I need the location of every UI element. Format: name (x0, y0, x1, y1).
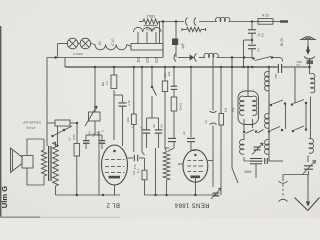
capacitor C12 (128, 155, 145, 162)
label C23 (262, 14, 269, 18)
trimmer C18 (252, 143, 263, 155)
svg-text:MΩ: MΩ (101, 82, 105, 86)
coil L7 (253, 96, 257, 115)
wire H1 b (199, 21, 217, 23)
junction (220, 66, 223, 69)
junction (268, 66, 271, 69)
label R4 (88, 131, 96, 137)
capacitor C22b (99, 141, 105, 149)
switch S5 (270, 100, 287, 106)
wire (244, 119, 253, 131)
label 170ohm (146, 14, 155, 18)
wire (294, 67, 296, 103)
scan edge bottom (0, 216, 120, 218)
potentiometer R4 (85, 106, 100, 126)
lamp La2 (78, 38, 91, 49)
junction (113, 66, 116, 69)
coil L5 (204, 53, 218, 57)
resistor R19 170ohm (139, 19, 159, 24)
svg-text:10k: 10k (224, 107, 228, 112)
junction (251, 66, 254, 69)
label lamps (73, 52, 83, 56)
wire (285, 105, 287, 130)
wire lamp feed (58, 44, 68, 58)
tuning capacitor C20 (303, 161, 316, 175)
coil L10b (265, 131, 269, 161)
T1 tap posts (138, 32, 156, 44)
label R9 (224, 107, 228, 112)
label tap 125 (146, 57, 150, 63)
label Dr (98, 40, 102, 44)
speaker LS driver (22, 156, 33, 169)
resistor R7b (168, 97, 177, 152)
coil L4 (216, 17, 230, 21)
svg-text:5nF: 5nF (133, 164, 137, 169)
svg-text:110: 110 (137, 57, 141, 63)
svg-text:12a: 12a (163, 72, 167, 77)
coil L11 (311, 73, 315, 92)
label tap 110 (137, 57, 141, 63)
tube V1 electrodes (105, 150, 125, 181)
lamp La1 (67, 38, 78, 49)
resistor R2 (74, 144, 80, 157)
capacitor C14 (155, 118, 163, 148)
svg-text:μF: μF (182, 131, 186, 135)
spark gap (279, 181, 288, 202)
wire (244, 39, 254, 67)
svg-text:170Ω: 170Ω (146, 14, 155, 18)
resistor R7a (162, 81, 169, 148)
coil L10 (265, 95, 269, 129)
wire (308, 171, 310, 175)
label C8 (274, 74, 278, 79)
plug arrow antenna (307, 47, 309, 52)
svg-text:Ulm G: Ulm G (0, 186, 9, 208)
svg-text:0,1: 0,1 (136, 169, 140, 173)
svg-text:# 23: # 23 (262, 14, 269, 18)
switch S2 mains (51, 126, 72, 137)
wire (164, 67, 166, 81)
capacitor C13 (143, 118, 151, 148)
svg-text:U0a: U0a (126, 117, 130, 122)
label C10 (111, 38, 115, 45)
fuse Si (258, 19, 273, 25)
wire (142, 67, 145, 155)
capacitor C4 4uF (172, 39, 178, 46)
label can (231, 107, 235, 112)
wire bottom mid rail (145, 194, 219, 197)
junction (133, 66, 136, 69)
wire (47, 122, 77, 124)
wire (133, 67, 135, 114)
svg-text:RENS 1884: RENS 1884 (174, 202, 209, 208)
wire (76, 156, 78, 195)
wire (86, 121, 102, 140)
capacitor C17 variable (204, 58, 217, 188)
label Bl25 (280, 38, 284, 46)
label R5 (126, 117, 134, 128)
svg-text:0,55: 0,55 (72, 134, 76, 140)
svg-text:μF: μF (140, 126, 144, 130)
wire bottom left rail (56, 186, 121, 196)
antenna (300, 37, 316, 59)
svg-text:≈58: ≈58 (274, 74, 278, 79)
wire (64, 58, 66, 68)
wire (162, 50, 164, 58)
resistor R9 (219, 67, 224, 195)
capacitor C22a (83, 141, 90, 149)
label RENS1884 (174, 202, 209, 208)
switch S1 (252, 56, 282, 61)
label C14 (152, 124, 164, 128)
speaker LS cone (11, 148, 23, 173)
trimmer C16 (211, 188, 221, 199)
svg-text:10 kΩ: 10 kΩ (179, 103, 183, 110)
svg-text:U7: U7 (68, 137, 72, 141)
label Ulm G (0, 186, 9, 208)
coil L8 (240, 134, 263, 161)
wire (114, 94, 123, 96)
junction (94, 66, 97, 69)
label C12 (133, 164, 137, 169)
label 240 (0, 0, 1, 1)
junction (247, 66, 250, 69)
wire (98, 131, 100, 195)
wire (94, 67, 96, 112)
label 5000 (244, 170, 251, 174)
wire (191, 142, 195, 151)
junction (151, 66, 154, 69)
svg-text:10a: 10a (231, 107, 235, 112)
resistor R1 1.5M (55, 120, 70, 126)
switch S7 (291, 100, 308, 106)
coil L12 (308, 97, 313, 163)
transformer T2 secondary (41, 150, 46, 176)
svg-text:12a: 12a (167, 71, 171, 76)
svg-text:μ10: μ10 (127, 100, 131, 105)
svg-text:BL 2: BL 2 (106, 202, 120, 208)
label right small (0, 0, 1, 1)
svg-text:4μF: 4μF (181, 43, 185, 49)
label R7a (167, 71, 171, 76)
capacitor C11 (119, 95, 127, 146)
junction (190, 66, 193, 69)
label tap 220 (155, 57, 159, 63)
svg-text:≠500: ≠500 (244, 170, 251, 174)
wire (55, 142, 57, 147)
wire H1 d (252, 21, 280, 23)
label 240 block (297, 60, 313, 64)
capacitor C24 (265, 158, 283, 164)
svg-text:1,5 (A): 1,5 (A) (26, 126, 35, 130)
wire H1 a (158, 21, 184, 23)
tube V2 RENS1884 envelope (183, 150, 208, 182)
label R3 (101, 81, 109, 87)
transformer T2 core (49, 146, 51, 181)
label C11 (127, 100, 131, 105)
wire left rail (46, 58, 48, 147)
wire (76, 122, 79, 144)
label R7 (163, 72, 167, 77)
wire (151, 67, 153, 86)
label R2 (68, 134, 77, 141)
capacitor C5 (248, 22, 256, 45)
switch S6 (268, 127, 284, 133)
svg-text:5M: 5M (132, 171, 136, 175)
wire (309, 58, 311, 74)
wire (283, 174, 309, 176)
label R6 (132, 169, 140, 175)
tube V2 electrodes (188, 154, 204, 182)
svg-text:R19 a: R19 a (146, 28, 155, 32)
svg-text:99: 99 (152, 124, 156, 128)
wire tube V2 cathode (194, 182, 196, 195)
svg-text:0,3: 0,3 (105, 81, 109, 85)
label 4uF (181, 43, 185, 49)
IF can outline (238, 91, 259, 125)
label R19 (144, 25, 158, 31)
wire (190, 67, 192, 137)
wire H1 c (229, 20, 254, 23)
switch S3 (151, 86, 157, 96)
coil L6 (240, 96, 244, 115)
label right small2 (296, 63, 301, 67)
connector plug (186, 18, 197, 26)
svg-text:05: 05 (160, 124, 164, 128)
wire (162, 20, 165, 57)
junction (242, 66, 245, 69)
label C6 (257, 48, 261, 52)
wire (305, 104, 307, 129)
wire (159, 22, 161, 44)
wire (57, 126, 59, 147)
capacitor C8 (278, 64, 281, 73)
wire H2 right (217, 56, 253, 59)
label C13 (140, 126, 144, 130)
label C15 (182, 131, 186, 135)
label R1a (23, 121, 41, 131)
capacitor C19 padder (250, 159, 262, 179)
capacitor C6 (248, 45, 256, 58)
svg-text:C5: C5 (261, 33, 265, 37)
svg-text:U,Em(A) 1μF: U,Em(A) 1μF (23, 121, 41, 125)
wire H2 mid (199, 57, 205, 59)
label C22 (96, 130, 105, 135)
resistor R8 zigzag (163, 148, 170, 195)
resistor R5 (131, 114, 136, 152)
wire (175, 20, 178, 57)
junction (164, 66, 167, 69)
svg-text:≠4: ≠4 (204, 120, 208, 124)
transformer T2 primary (53, 142, 59, 186)
label C5 (257, 33, 265, 37)
wire H2 left (47, 56, 163, 59)
ground symbol (295, 175, 320, 211)
capacitor C15 (187, 138, 195, 141)
switch S8 (292, 126, 308, 132)
svg-text:9/0,9 h: 9/0,9 h (73, 52, 83, 56)
svg-text:C 10: C 10 (111, 38, 115, 45)
wire (91, 44, 95, 45)
choke Dr (95, 45, 131, 50)
connector plug (174, 54, 197, 62)
wire (244, 67, 253, 97)
resistor R6 (142, 158, 147, 195)
wire (155, 148, 157, 195)
plug tip (280, 20, 288, 22)
tube V1 BL2 envelope (102, 145, 128, 185)
svg-text:Bl 25: Bl 25 (280, 38, 284, 46)
switch S4 (243, 130, 264, 134)
scan edge left (0, 26, 1, 218)
junction (173, 66, 176, 69)
coil L9 (265, 67, 269, 91)
wire H3 bus (65, 66, 311, 69)
svg-text:≠40: ≠40 (297, 60, 302, 64)
speaker wires (27, 139, 44, 185)
transformer T1 primary tap box (131, 44, 163, 51)
wire rail (232, 58, 238, 184)
capacitor C7 (171, 67, 178, 97)
wire tube V2 grid side (178, 161, 213, 165)
capacitor C21 (168, 138, 176, 141)
wire tube V1 cathode (107, 184, 115, 196)
junction (141, 66, 144, 69)
resistor R3 (111, 67, 117, 89)
resistor R20 (182, 27, 206, 31)
wire (147, 96, 159, 118)
junction (231, 66, 234, 69)
T1 primary winding (134, 27, 162, 32)
wire (113, 90, 115, 140)
label BL2 (106, 202, 120, 208)
wire rail (268, 67, 270, 161)
label R7b (179, 103, 183, 110)
wire (282, 175, 284, 182)
svg-text:C6: C6 (257, 48, 261, 52)
